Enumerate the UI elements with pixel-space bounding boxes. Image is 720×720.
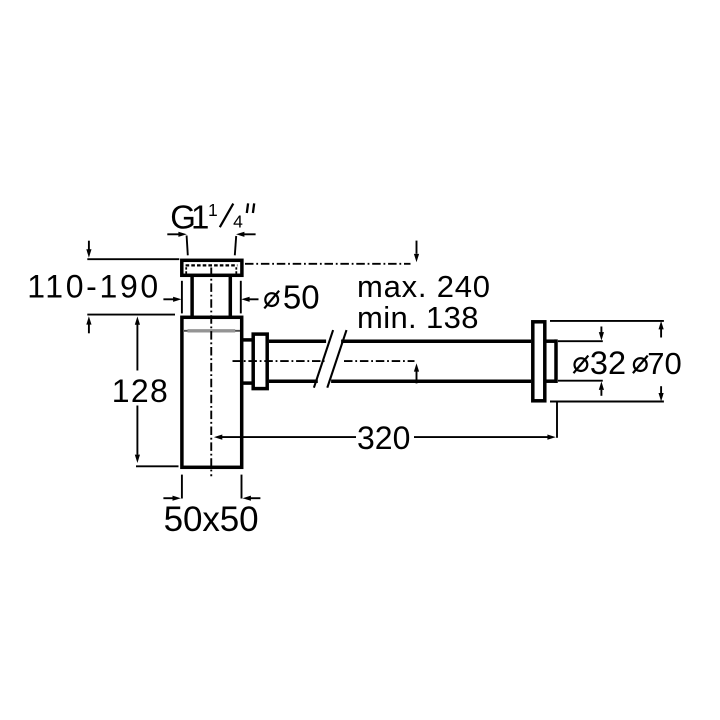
svg-text:320: 320 — [357, 420, 410, 456]
svg-text:70: 70 — [647, 346, 681, 381]
svg-text:4: 4 — [233, 212, 243, 232]
svg-text:50: 50 — [283, 279, 320, 316]
svg-text:32: 32 — [590, 345, 626, 381]
svg-text:128: 128 — [112, 373, 168, 409]
svg-text:max. 240: max. 240 — [357, 269, 490, 304]
svg-text:1: 1 — [208, 200, 218, 220]
svg-text:1: 1 — [191, 199, 209, 236]
svg-text:min. 138: min. 138 — [357, 300, 479, 335]
svg-text:50x50: 50x50 — [164, 500, 259, 539]
